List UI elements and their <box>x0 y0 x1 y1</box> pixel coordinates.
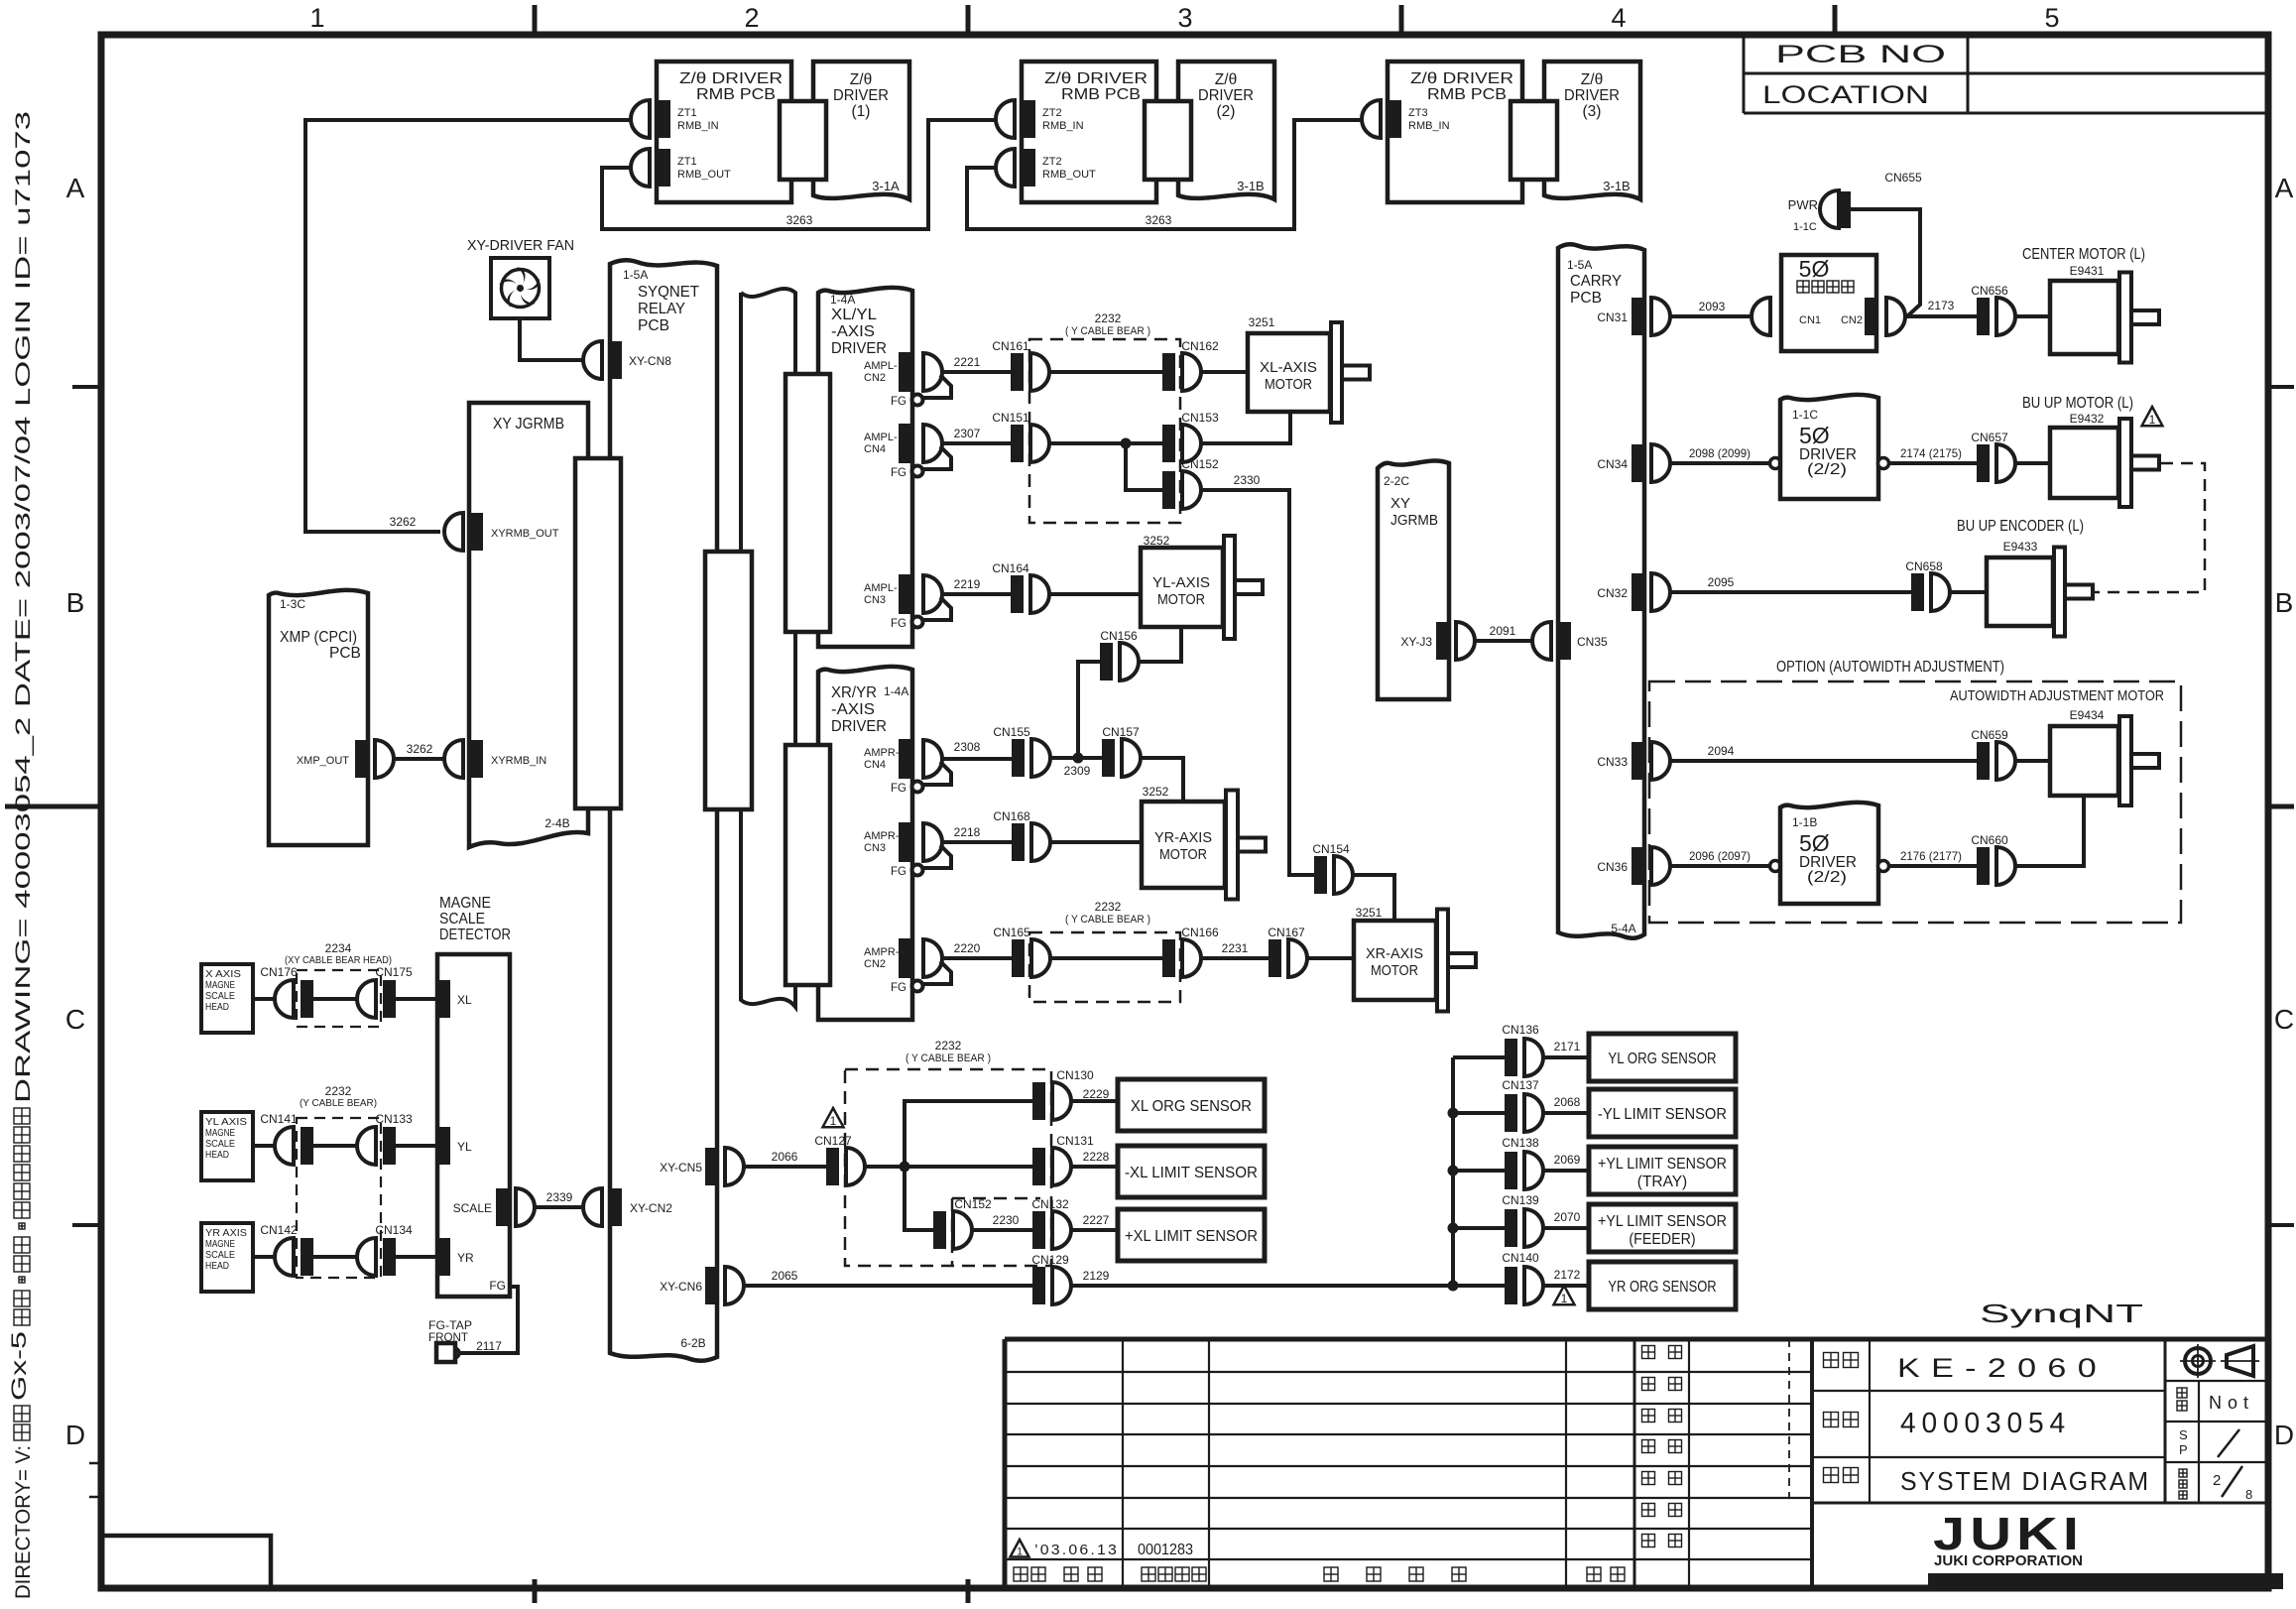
dashed box 2232 Y CABLE BEAR (top) <box>1029 339 1180 523</box>
svg-text:(3): (3) <box>1583 103 1602 120</box>
svg-text:CN35: CN35 <box>1577 635 1608 649</box>
dashed box 2232 Y CABLE BEAR (bottom) <box>845 1069 1051 1266</box>
svg-text:XY-CN8: XY-CN8 <box>629 354 671 368</box>
svg-text:LOCATION: LOCATION <box>1762 81 1929 109</box>
connector CN31 <box>1597 298 1670 335</box>
svg-text:E9431: E9431 <box>2070 264 2105 278</box>
svg-text:XY-CN5: XY-CN5 <box>660 1161 702 1175</box>
connector CN133 <box>357 1112 413 1165</box>
connector CN137 <box>1453 1111 1505 1115</box>
svg-text:RELAY: RELAY <box>638 301 685 317</box>
svg-text:AMPR-: AMPR- <box>864 946 900 958</box>
svg-text:JUKI CORPORATION: JUKI CORPORATION <box>1934 1552 2083 1569</box>
wire 2221 <box>940 370 1011 374</box>
connector XY-J3 <box>1400 622 1475 660</box>
svg-text:Z/θ DRIVER: Z/θ DRIVER <box>679 70 783 87</box>
svg-text:AMPL-: AMPL- <box>864 360 898 372</box>
svg-text:CN660: CN660 <box>1971 833 2008 847</box>
svg-text:2231: 2231 <box>1222 941 1249 955</box>
svg-text:MOTOR: MOTOR <box>1157 591 1205 608</box>
svg-text:CN34: CN34 <box>1597 457 1628 471</box>
svg-text:2: 2 <box>2213 1472 2221 1489</box>
connector XY-CN5 <box>660 1148 744 1185</box>
wire CN167 to XR motor <box>1307 956 1354 960</box>
svg-text:CN156: CN156 <box>1100 629 1138 643</box>
svg-text:2065: 2065 <box>772 1269 798 1283</box>
junction node sensor bus y=1180 <box>1448 1166 1459 1176</box>
svg-text:XY-J3: XY-J3 <box>1400 635 1432 649</box>
wire 2098 (2099) <box>1670 461 1770 465</box>
svg-text:1-4A: 1-4A <box>830 293 855 307</box>
svg-text:OPTION (AUTOWIDTH ADJUSTMENT): OPTION (AUTOWIDTH ADJUSTMENT) <box>1776 659 2004 676</box>
svg-text:XY-CN2: XY-CN2 <box>630 1201 672 1215</box>
svg-text:HEAD: HEAD <box>205 1149 229 1161</box>
junction node on wire 2307 <box>1121 438 1132 449</box>
svg-text:CN134: CN134 <box>375 1223 413 1237</box>
dashed box 2232 Y CABLE BEAR (mid) <box>1029 932 1180 1002</box>
svg-text:CN129: CN129 <box>1031 1253 1069 1267</box>
-XL LIMIT SENSOR box <box>1118 1146 1265 1197</box>
dashed link motor to encoder <box>2093 463 2205 592</box>
connector ZT2 RMB_IN <box>996 100 1084 138</box>
svg-text:DRIVER: DRIVER <box>831 340 887 357</box>
wire 2218 <box>940 840 1012 844</box>
svg-text:CN3: CN3 <box>864 594 886 606</box>
connector CN176 <box>260 965 313 1018</box>
junction node on wire 2066 <box>900 1162 910 1173</box>
connector ZT3 RMB_IN <box>1362 100 1450 138</box>
svg-text:CN139: CN139 <box>1502 1193 1539 1207</box>
svg-text:3251: 3251 <box>1356 906 1383 920</box>
Z/0 DRIVER (3) box <box>1544 62 1640 199</box>
connector CN152 <box>1162 457 1219 509</box>
PCB NO / LOCATION table <box>1743 35 1746 113</box>
svg-text:CN138: CN138 <box>1502 1136 1539 1150</box>
svg-text:XY JGRMB: XY JGRMB <box>493 416 564 433</box>
connector CN35 <box>1532 622 1608 660</box>
type section <box>1810 1339 1814 1588</box>
svg-text:DIRECTORY= V:: DIRECTORY= V: <box>12 1445 35 1599</box>
svg-text:2-4B: 2-4B <box>544 816 569 830</box>
scale/page section <box>2164 1339 2167 1503</box>
svg-text:CN140: CN140 <box>1502 1251 1539 1265</box>
connector CN139 <box>1453 1226 1505 1230</box>
svg-text:XY-DRIVER FAN: XY-DRIVER FAN <box>467 238 574 254</box>
svg-text:CN167: CN167 <box>1268 926 1305 939</box>
svg-text:-AXIS: -AXIS <box>831 701 875 718</box>
connector PWR (CN655) <box>1820 190 1851 228</box>
wire CN154 to XR motor top <box>1353 875 1394 921</box>
svg-text:0001283: 0001283 <box>1138 1542 1193 1558</box>
connector AMPR-CN2 <box>891 938 951 994</box>
wire CN161 to CN162 <box>1049 370 1162 374</box>
svg-text:2096 (2097): 2096 (2097) <box>1689 849 1751 863</box>
svg-text:CN2: CN2 <box>1841 314 1863 326</box>
svg-text:RMB PCB: RMB PCB <box>1427 86 1507 103</box>
YR-AXIS MOTOR <box>1142 791 1266 900</box>
connector CN142 <box>260 1223 313 1276</box>
svg-text:XMP (CPCI): XMP (CPCI) <box>280 629 357 646</box>
svg-text:HEAD: HEAD <box>205 1260 229 1272</box>
svg-text:Z/θ DRIVER: Z/θ DRIVER <box>1044 70 1148 87</box>
svg-text:Z/θ: Z/θ <box>850 71 872 88</box>
wire 2176 (2177) <box>1889 864 1977 868</box>
wire 2094 <box>1670 759 1977 763</box>
Z/0 driver RMB PCB block ZT1 <box>657 62 791 202</box>
SYQNET RELAY PCB board <box>610 260 717 1360</box>
svg-text:1: 1 <box>830 1114 837 1128</box>
Z/0 driver RMB PCB block ZT2 <box>1022 62 1156 202</box>
wire CN168 to YR motor <box>1050 840 1142 844</box>
svg-text:CN31: CN31 <box>1597 310 1628 324</box>
svg-text:3262: 3262 <box>407 742 433 756</box>
wire 2091 <box>1475 639 1533 643</box>
BU UP MOTOR E9432 <box>2050 419 2159 507</box>
svg-text:CN4: CN4 <box>864 759 886 771</box>
connector XYRMB_OUT <box>444 513 559 551</box>
svg-text:FG: FG <box>891 866 906 878</box>
wire 3263 ZT2 RMB_OUT to ZT3 RMB_IN <box>967 120 1364 229</box>
XY JGRMB board <box>469 403 588 847</box>
svg-text:5-4A: 5-4A <box>1611 922 1635 935</box>
svg-text:PCB: PCB <box>1570 290 1602 307</box>
svg-text:CN157: CN157 <box>1102 725 1140 739</box>
svg-text:3-1B: 3-1B <box>1237 179 1264 193</box>
svg-text:2232: 2232 <box>1095 311 1122 325</box>
svg-text:HEAD: HEAD <box>205 1001 229 1013</box>
svg-text:CN153: CN153 <box>1181 411 1219 425</box>
svg-text:2117: 2117 <box>476 1339 502 1353</box>
margin vertical text DIRECTORY/DRAWING/DATE/LOGIN <box>8 111 35 1599</box>
svg-text:C: C <box>65 1004 85 1035</box>
svg-text:2-2C: 2-2C <box>1384 474 1409 488</box>
wire motor bottom to CN660 <box>2015 796 2084 866</box>
svg-text:CN1: CN1 <box>1799 314 1821 326</box>
svg-text:1: 1 <box>309 3 324 33</box>
branch to CN152 <box>1126 443 1162 490</box>
svg-text:2230: 2230 <box>993 1213 1020 1227</box>
svg-text:YR-AXIS: YR-AXIS <box>1154 829 1212 846</box>
connector CN154 <box>1312 842 1353 894</box>
svg-text:5: 5 <box>2044 3 2059 33</box>
connector AMPR-CN4 <box>891 739 951 795</box>
third angle projection symbol <box>2185 1348 2211 1374</box>
svg-text:3262: 3262 <box>390 515 417 529</box>
svg-text:(TRAY): (TRAY) <box>1637 1174 1687 1190</box>
connector CN34 <box>1597 444 1670 482</box>
svg-text:XL: XL <box>457 993 472 1007</box>
AUTOWIDTH ADJUSTMENT MOTOR E9434 <box>2050 716 2159 805</box>
port YR <box>437 1238 450 1276</box>
svg-text:2095: 2095 <box>1708 575 1735 589</box>
svg-text:2218: 2218 <box>954 825 981 839</box>
svg-text:CN658: CN658 <box>1905 559 1943 573</box>
XL-AXIS MOTOR <box>1248 322 1370 423</box>
connector XYRMB_IN <box>444 740 546 778</box>
connector CN36 <box>1597 847 1670 885</box>
svg-text:8: 8 <box>2245 1487 2252 1502</box>
svg-text:YL: YL <box>457 1140 472 1154</box>
wire 2220 <box>940 956 1012 960</box>
svg-text:MOTOR: MOTOR <box>1265 376 1312 393</box>
svg-text:2066: 2066 <box>772 1150 798 1164</box>
svg-text:FG: FG <box>489 1279 506 1293</box>
svg-text:CN33: CN33 <box>1597 755 1628 769</box>
svg-text:SYQNET: SYQNET <box>638 284 700 301</box>
wire 2219 <box>940 592 1011 596</box>
connector CN657 <box>1971 431 2015 482</box>
svg-text:2070: 2070 <box>1554 1210 1581 1224</box>
svg-text:SCALE: SCALE <box>439 911 485 928</box>
branch down to CN152 <box>905 1167 933 1230</box>
YL-AXIS MOTOR <box>1141 536 1263 639</box>
svg-text:D: D <box>2274 1420 2294 1450</box>
svg-text:PCB: PCB <box>638 317 669 334</box>
board-to-board connector <box>1145 101 1191 180</box>
svg-text:CN154: CN154 <box>1312 842 1350 856</box>
svg-text:(2/2): (2/2) <box>1807 461 1847 478</box>
svg-text:2309: 2309 <box>1064 764 1091 778</box>
svg-text:MOTOR: MOTOR <box>1159 846 1207 863</box>
svg-text:CN176: CN176 <box>260 965 298 979</box>
svg-text:3251: 3251 <box>1249 315 1275 329</box>
svg-text:FG: FG <box>891 982 906 994</box>
svg-text:2068: 2068 <box>1554 1095 1581 1109</box>
YR ORG SENSOR box <box>1589 1262 1736 1309</box>
svg-text:C: C <box>2274 1004 2294 1035</box>
connector AMPR-CN3 <box>891 822 951 878</box>
svg-text:CARRY: CARRY <box>1570 273 1622 290</box>
connector CN153 <box>1162 411 1219 462</box>
connector CN140 <box>1453 1284 1505 1288</box>
wire CN156 left-down to 2309 junction <box>1078 662 1100 758</box>
connector AMPL-CN2 <box>891 352 951 408</box>
svg-text:2234: 2234 <box>325 941 352 955</box>
connector CN152 (cable) <box>933 1197 992 1249</box>
junction node sensor bus y=1238 <box>1448 1223 1459 1234</box>
svg-text:-XL LIMIT SENSOR: -XL LIMIT SENSOR <box>1125 1165 1258 1181</box>
connector CN33 <box>1597 742 1670 780</box>
junction node sensor bus y=1122 <box>1448 1108 1459 1119</box>
wire to center motor <box>2015 314 2050 318</box>
svg-text:FRONT: FRONT <box>428 1332 468 1344</box>
svg-text:+YL LIMIT SENSOR: +YL LIMIT SENSOR <box>1598 1213 1727 1230</box>
svg-text:CN2: CN2 <box>864 958 886 970</box>
svg-text:E9432: E9432 <box>2070 412 2105 426</box>
wire head to CN142 <box>253 1255 276 1259</box>
connector CN130 <box>1032 1068 1094 1120</box>
svg-text:XY-CN6: XY-CN6 <box>660 1280 702 1294</box>
+XL LIMIT SENSOR box <box>1118 1209 1265 1261</box>
Z/0 driver RMB PCB block ZT3 <box>1388 62 1522 202</box>
board-to-board connector <box>780 101 826 180</box>
svg-text:’03.06.13: ’03.06.13 <box>1034 1543 1119 1558</box>
CENTER MOTOR E9431 <box>2050 273 2159 363</box>
svg-text:1-3C: 1-3C <box>280 597 305 611</box>
board-to-board connector <box>1511 101 1557 180</box>
svg-text:CN151: CN151 <box>992 411 1029 425</box>
svg-text:(1): (1) <box>852 103 871 120</box>
connector CN656 <box>1971 284 2015 335</box>
svg-text:2307: 2307 <box>954 427 981 440</box>
svg-text:ZT1: ZT1 <box>677 156 697 168</box>
svg-text:2174 (2175): 2174 (2175) <box>1900 446 1962 460</box>
svg-text:1-4A: 1-4A <box>884 684 908 698</box>
connector CN658 <box>1905 559 1950 611</box>
svg-text:CN164: CN164 <box>992 561 1029 575</box>
title block <box>1005 1339 2268 1588</box>
wire CN165 to CN166 <box>1050 956 1162 960</box>
Z/0 DRIVER (1) box <box>813 62 909 199</box>
wire 3262 riser to ZT1 RMB_IN <box>305 120 633 532</box>
XL/YL-AXIS DRIVER board <box>818 288 912 647</box>
connector CN138 <box>1453 1169 1505 1173</box>
svg-text:JGRMB: JGRMB <box>1390 512 1438 529</box>
svg-text:CN127: CN127 <box>814 1134 852 1148</box>
connector CN164 <box>992 561 1049 613</box>
connector ZT1 RMB_IN <box>631 100 719 138</box>
svg-text:4: 4 <box>1611 3 1626 33</box>
svg-text:RMB_IN: RMB_IN <box>1042 120 1084 132</box>
svg-text:AMPL-: AMPL- <box>864 582 898 594</box>
svg-text:YL ORG SENSOR: YL ORG SENSOR <box>1608 1051 1716 1067</box>
connector CN660 <box>1971 833 2015 885</box>
svg-text:XL ORG SENSOR: XL ORG SENSOR <box>1131 1098 1252 1115</box>
svg-text:1: 1 <box>1017 1547 1023 1558</box>
wire 2096 (2097) <box>1670 864 1770 868</box>
wire YL motor to CN156 <box>1139 627 1181 662</box>
svg-text:1-1C: 1-1C <box>1793 221 1817 233</box>
svg-text:-YL LIMIT SENSOR: -YL LIMIT SENSOR <box>1598 1106 1727 1123</box>
svg-text:1-5A: 1-5A <box>1567 258 1592 272</box>
svg-text:BU UP ENCODER (L): BU UP ENCODER (L) <box>1957 518 2084 535</box>
YL AXIS MAGNE SCALE HEAD <box>201 1112 253 1180</box>
svg-text:( Y CABLE BEAR ): ( Y CABLE BEAR ) <box>1065 914 1150 926</box>
svg-text:KE-2060: KE-2060 <box>1897 1353 2108 1383</box>
svg-text:CN655: CN655 <box>1884 171 1922 185</box>
+YL LIMIT SENSOR box <box>1589 1147 1736 1194</box>
wire 2065 <box>744 1284 1032 1288</box>
svg-text:1: 1 <box>1561 1292 1568 1305</box>
svg-text:E9433: E9433 <box>2003 540 2038 554</box>
CARRY PCB board <box>1558 244 1644 937</box>
svg-text:ZT2: ZT2 <box>1042 156 1062 168</box>
svg-text:XY: XY <box>1390 495 1410 512</box>
approval section <box>1688 1339 1690 1588</box>
connector XY-CN6 <box>660 1267 744 1304</box>
svg-text:1-5A: 1-5A <box>623 268 648 282</box>
svg-text:PWR: PWR <box>1788 197 1818 212</box>
svg-text:2227: 2227 <box>1083 1213 1110 1227</box>
wire 2307 <box>940 441 1011 445</box>
wire CN162 to XL motor <box>1201 370 1248 374</box>
zone row ticks left <box>72 385 101 389</box>
revision header row (kanji) <box>1014 1567 1027 1581</box>
svg-text:2129: 2129 <box>1083 1269 1110 1283</box>
revision row <box>1011 1540 1029 1558</box>
svg-text:Z/θ: Z/θ <box>1215 71 1237 88</box>
svg-text:XYRMB_IN: XYRMB_IN <box>491 755 546 767</box>
connector CN151 <box>992 411 1049 462</box>
svg-text:(2/2): (2/2) <box>1807 869 1847 886</box>
connector ZT2 RMB_OUT <box>996 149 1096 186</box>
svg-text:AUTOWIDTH ADJUSTMENT MOTOR: AUTOWIDTH ADJUSTMENT MOTOR <box>1950 687 2164 704</box>
junction node sensor bus y=1296 <box>1448 1281 1459 1292</box>
svg-text:2229: 2229 <box>1083 1087 1110 1101</box>
svg-text:5Ø: 5Ø <box>1799 830 1830 856</box>
svg-text:AMPR-: AMPR- <box>864 747 900 759</box>
svg-text:ZT3: ZT3 <box>1408 107 1428 119</box>
wire 3262 XMP_OUT to XYRMB_IN <box>394 757 444 761</box>
svg-text:B: B <box>2275 587 2294 618</box>
svg-text:CN161: CN161 <box>992 339 1029 353</box>
svg-text:CN155: CN155 <box>993 725 1030 739</box>
connector CN166 <box>1162 926 1219 977</box>
svg-text:CN2: CN2 <box>864 372 886 384</box>
svg-text:RMB_IN: RMB_IN <box>1408 120 1450 132</box>
svg-text:XYRMB_OUT: XYRMB_OUT <box>491 528 559 540</box>
svg-text:CN32: CN32 <box>1597 586 1628 600</box>
svg-text:FG-TAP: FG-TAP <box>428 1320 472 1332</box>
svg-text:FG: FG <box>891 783 906 795</box>
svg-text:CN165: CN165 <box>993 926 1030 939</box>
-YL LIMIT SENSOR box <box>1589 1089 1736 1137</box>
port YL <box>437 1127 450 1165</box>
svg-text:2220: 2220 <box>954 941 981 955</box>
svg-text:XL-AXIS: XL-AXIS <box>1260 359 1317 376</box>
connector CN659 <box>1971 728 2015 780</box>
wire PWR to 2173 <box>1851 209 1920 316</box>
svg-text:YL-AXIS: YL-AXIS <box>1152 574 1210 591</box>
wire 3263 ZT1 RMB_OUT to ZT2 RMB_IN <box>602 120 998 229</box>
YR AXIS MAGNE SCALE HEAD <box>201 1223 253 1292</box>
connector CN129 <box>1031 1253 1071 1304</box>
svg-text:CN142: CN142 <box>260 1223 298 1237</box>
svg-text:XMP_OUT: XMP_OUT <box>297 755 349 767</box>
svg-text:DRIVER: DRIVER <box>831 718 887 735</box>
connector CN175 <box>357 965 413 1018</box>
connector XY-CN2 <box>583 1188 672 1226</box>
svg-text:3263: 3263 <box>1146 213 1172 227</box>
5-phi driver (CN1/CN2) box <box>1752 298 1793 335</box>
svg-text:2219: 2219 <box>954 577 981 591</box>
X AXIS MAGNE SCALE HEAD <box>201 964 253 1033</box>
svg-text:2232: 2232 <box>325 1084 352 1098</box>
svg-text:(2): (2) <box>1217 103 1236 120</box>
svg-text:B: B <box>66 587 85 618</box>
svg-text:2330: 2330 <box>1234 473 1261 487</box>
connector CN165 <box>993 926 1050 977</box>
connector AMPL-CN3 <box>891 574 951 630</box>
svg-text:XL/YL: XL/YL <box>831 307 877 323</box>
svg-text:MAGNE: MAGNE <box>439 895 491 912</box>
svg-text:2308: 2308 <box>954 740 981 754</box>
svg-text:RMB_OUT: RMB_OUT <box>677 169 731 181</box>
svg-text:DRAWING= 40003054_2 DATE= 2: DRAWING= 40003054_2 DATE= 2003/07/04 LOG… <box>12 111 35 1103</box>
svg-text:CN168: CN168 <box>993 809 1030 823</box>
svg-text:2228: 2228 <box>1083 1150 1110 1164</box>
wire 2339 <box>535 1205 584 1209</box>
svg-text:1-1C: 1-1C <box>1792 408 1818 422</box>
svg-text:RMB PCB: RMB PCB <box>1061 86 1141 103</box>
wire 2173 <box>1905 314 1977 318</box>
wire CN153 up to XL motor <box>1201 412 1290 443</box>
connector CN161 <box>992 339 1049 391</box>
board-to-board connector bar B4 <box>575 458 621 808</box>
svg-text:E9434: E9434 <box>2070 708 2105 722</box>
svg-text:2221: 2221 <box>954 355 981 369</box>
5-phi DRIVER (2/2) box 1-1B <box>1780 803 1878 904</box>
